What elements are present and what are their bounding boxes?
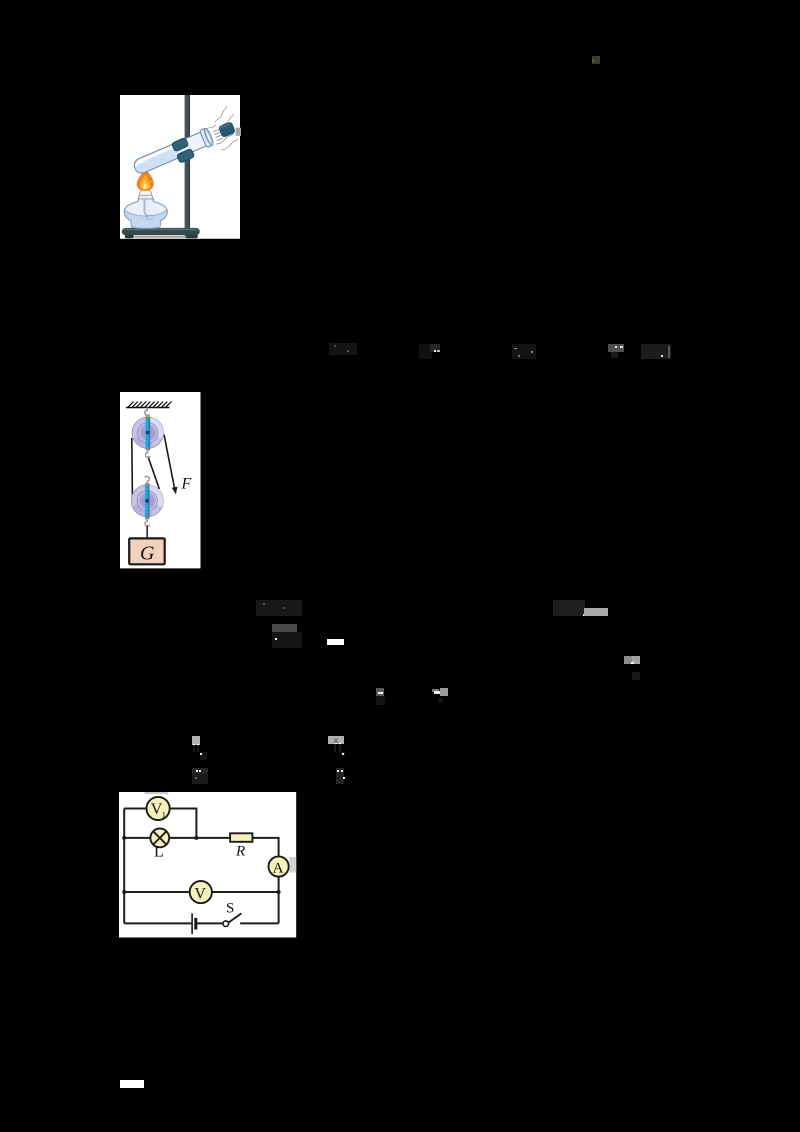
node fraction mid col lower — [336, 768, 344, 784]
wire bottom row — [124, 922, 278, 924]
wires — [124, 808, 278, 923]
rope left (wire) — [131, 438, 134, 496]
ground shadow line — [134, 237, 186, 239]
tube liquid — [133, 147, 180, 175]
ceiling hook — [145, 407, 150, 415]
wire V row — [124, 891, 278, 893]
node fragment row4 a — [376, 688, 384, 696]
iron stand rod — [184, 95, 189, 231]
F arrowhead — [171, 486, 177, 494]
flame core — [143, 184, 146, 189]
node fraction left col upper — [192, 736, 200, 745]
tube body — [132, 131, 211, 176]
switch S — [223, 920, 229, 926]
rubber stopper — [218, 122, 235, 137]
wick holder — [139, 190, 151, 199]
rope middle diagonal (wire) — [148, 456, 159, 489]
node fraction mid col upper — [328, 736, 344, 744]
resistor R — [230, 833, 252, 842]
svg-text:V: V — [194, 885, 206, 902]
iron stand base — [121, 228, 199, 235]
gray tab at right edge — [235, 128, 240, 136]
node fragment row2 left — [256, 600, 302, 616]
node fragment row4 b — [432, 689, 439, 693]
lower axle — [145, 483, 150, 519]
test tube group — [131, 128, 214, 178]
hook below upper pulley — [145, 450, 150, 457]
ammeter A — [268, 856, 288, 876]
white panel — [119, 792, 296, 938]
flame mid — [140, 174, 150, 191]
node fraction left col lower — [192, 768, 208, 784]
gray tab right edge — [289, 856, 296, 872]
wire middle row — [124, 837, 278, 856]
svg-text:F: F — [180, 475, 191, 492]
node fragment row1 e — [641, 344, 671, 359]
flame outer — [136, 168, 153, 191]
node fragment row3 gray patch — [272, 624, 297, 632]
voltmeter V — [189, 881, 211, 903]
tube highlight — [139, 139, 191, 162]
battery — [191, 913, 193, 934]
lamp liquid — [125, 210, 167, 228]
junction node dots — [122, 835, 126, 839]
svg-text:G: G — [140, 542, 155, 564]
figure 2: pulley system with weight G — [120, 392, 201, 569]
figure 3: circuit diagram — [119, 792, 297, 938]
faint gray bar remnant — [144, 792, 168, 794]
clamp lower jaw — [176, 149, 194, 164]
svg-text:1: 1 — [161, 809, 165, 819]
rope F diagonal (wire) — [164, 434, 175, 491]
wire left vertical — [123, 808, 125, 923]
figure 1: test tube heated by alcohol lamp on iron stand — [120, 95, 241, 239]
white page number bar bottom left — [120, 1080, 144, 1088]
svg-text:S: S — [226, 900, 234, 916]
lower pulley — [131, 484, 163, 516]
svg-text:L: L — [154, 843, 164, 860]
node fragment above circuit — [192, 774, 208, 784]
alcohol lamp body — [124, 199, 167, 229]
node fragment row1 c — [512, 344, 536, 359]
lamp L — [150, 828, 169, 847]
white panel — [120, 95, 240, 239]
base feet — [124, 235, 133, 239]
wire right vertical — [277, 876, 279, 923]
node fraction gray rect right — [624, 656, 632, 664]
ceiling hatching — [126, 401, 171, 407]
gray bar row2 — [584, 608, 608, 615]
vapor lines — [215, 106, 227, 122]
voltmeter V1 — [146, 796, 169, 819]
node fragment row1 b — [419, 344, 432, 359]
hook below lower pulley — [145, 519, 150, 526]
node fragment row1 d — [608, 344, 624, 352]
node quote mark top right — [592, 56, 600, 65]
upper axle — [145, 416, 150, 450]
upper pulley — [132, 417, 163, 448]
svg-text:A: A — [272, 860, 283, 876]
node 30 deg fragment row1 a — [329, 343, 357, 355]
white panel — [120, 392, 201, 568]
tube mouth flange — [199, 128, 212, 148]
clamp upper jaw — [171, 138, 188, 153]
white bar row3 — [327, 639, 344, 645]
wick inside lamp — [144, 199, 147, 217]
svg-text:R: R — [235, 843, 245, 859]
node fragment row2 right — [553, 600, 585, 616]
hook above lower pulley — [144, 476, 149, 483]
weight box G — [129, 538, 165, 564]
wire top branch to V1 — [124, 808, 196, 837]
flame inner — [141, 179, 147, 189]
load rope to G — [146, 525, 148, 538]
